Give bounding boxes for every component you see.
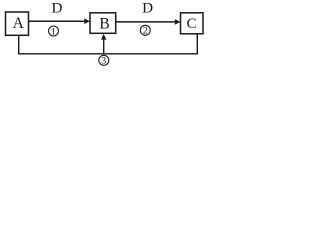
box C	[181, 13, 204, 34]
feedback wire from A bottom to C bottom	[19, 34, 198, 54]
node label 1 circled	[49, 26, 59, 37]
svg-text:B: B	[99, 16, 109, 33]
svg-text:2: 2	[143, 27, 148, 37]
box B	[90, 13, 116, 34]
wire arrow up into B bottom	[101, 34, 106, 54]
wire arrow A to B	[29, 18, 90, 24]
svg-text:C: C	[187, 16, 197, 32]
svg-text:D: D	[52, 0, 63, 17]
svg-text:A: A	[13, 15, 25, 32]
svg-text:D: D	[142, 0, 153, 16]
wire arrow B to C	[116, 19, 181, 25]
svg-text:3: 3	[101, 57, 106, 67]
node label 2 circled	[140, 25, 150, 36]
svg-text:1: 1	[51, 27, 56, 37]
node label 3 circled	[99, 55, 109, 66]
box A	[6, 12, 29, 35]
